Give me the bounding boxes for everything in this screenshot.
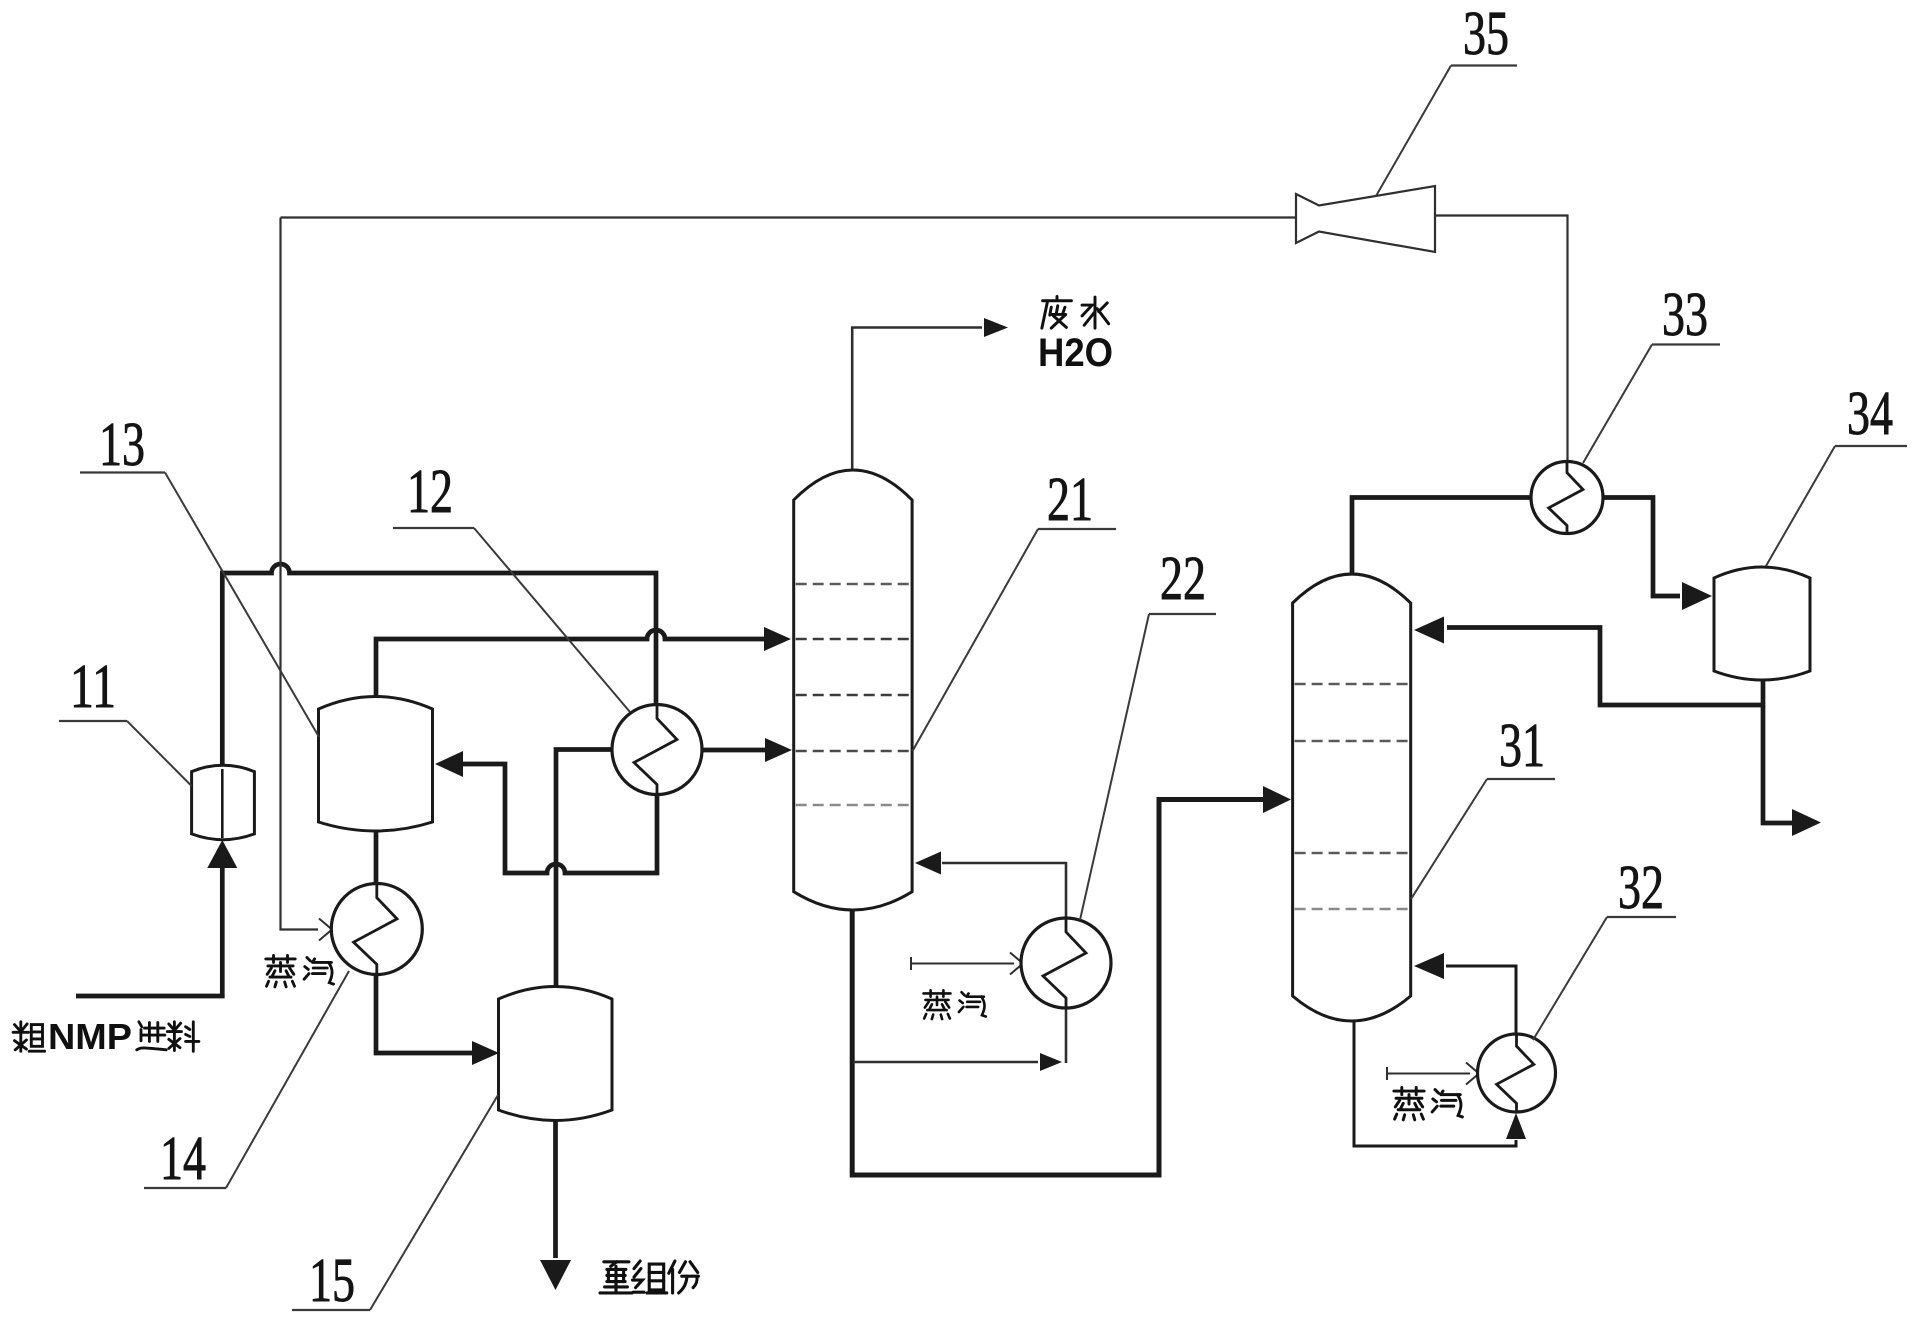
wire HX12 outlet to column 21 — [700, 738, 792, 762]
heat exchanger 14 (steam heater) — [331, 884, 422, 975]
label 13 — [80, 411, 319, 737]
label 33 — [1583, 281, 1720, 463]
wire HX12 left to vessel 15 — [556, 750, 614, 989]
svg-text:12: 12 — [407, 458, 453, 526]
heat exchanger 22 (reboiler) — [1021, 918, 1111, 1008]
wire HX14 bottom to vessel 15 — [376, 972, 499, 1065]
text steam at HX14 — [266, 955, 334, 987]
svg-text:22: 22 — [1160, 545, 1206, 613]
svg-text:NMP: NMP — [48, 1016, 132, 1057]
heat exchanger 33 (condenser) — [1531, 462, 1603, 534]
svg-text:H2O: H2O — [1038, 331, 1113, 375]
svg-text:31: 31 — [1499, 712, 1545, 780]
wire vessel 15 bottoms outlet — [540, 1118, 571, 1290]
wire vessel 13 top to column 21 feed — [376, 627, 791, 698]
text wastewater — [1038, 296, 1113, 375]
wire reflux return to column 31 — [1414, 617, 1765, 706]
wire HX33 to vessel 34 — [1602, 498, 1712, 611]
text steam at HX22 — [924, 990, 986, 1019]
svg-text:13: 13 — [99, 411, 145, 479]
svg-text:34: 34 — [1847, 380, 1893, 448]
svg-text:15: 15 — [309, 1247, 355, 1315]
svg-text:33: 33 — [1662, 281, 1708, 349]
label 12 — [393, 458, 630, 712]
vessel 34 (reflux drum) — [1714, 567, 1810, 680]
wire column 21 bottoms branch to HX22 — [853, 1008, 1066, 1071]
text steam at HX32 — [1394, 1087, 1463, 1119]
vessel 13 (tank) — [319, 697, 433, 832]
label 22 — [1080, 545, 1216, 920]
label 15 — [292, 1095, 498, 1315]
wire HX22 vapor return to column 21 — [915, 852, 1066, 921]
svg-text:11: 11 — [70, 653, 116, 721]
svg-text:21: 21 — [1047, 466, 1093, 534]
wire vessel 13 bottom to HX14 — [374, 829, 379, 886]
ejector 35 (vapor compressor) — [1296, 186, 1435, 252]
vessel 15 (heavies tank) — [499, 987, 613, 1121]
heat exchanger 12 — [612, 705, 702, 795]
wire steam riser to HX14 — [281, 218, 333, 941]
wire HX12 bottom recycle to vessel 13 — [435, 751, 657, 873]
label 34 — [1766, 380, 1907, 566]
text heavy components — [600, 1261, 698, 1293]
label 14 — [144, 971, 349, 1193]
column 31 (rectifying column) — [1293, 574, 1411, 1021]
wire column 31 bottoms to HX32 — [1354, 1019, 1526, 1146]
wire vessel 11 internal passage — [221, 769, 224, 838]
wire vessel 34 bottoms line — [1761, 678, 1766, 707]
wire overhead header to HX12 top — [220, 564, 656, 706]
wire column 21 overhead wastewater — [852, 318, 1008, 470]
wire crude NMP feed line — [76, 840, 237, 996]
label 11 — [59, 653, 192, 786]
wire HX33 to column 31 top — [1352, 498, 1532, 577]
text crude NMP feed — [13, 1016, 199, 1057]
wire ejector suction line — [281, 216, 1297, 218]
label 21 — [913, 466, 1117, 751]
vessel 11 (filter) — [192, 765, 255, 839]
heat exchanger 32 (reboiler) — [1478, 1034, 1556, 1112]
label 35 — [1376, 0, 1517, 196]
svg-text:32: 32 — [1618, 854, 1664, 922]
label 32 — [1533, 854, 1676, 1040]
wire steam inlet to HX22 — [911, 952, 1023, 974]
wire ejector discharge to HX33 — [1435, 216, 1568, 463]
wire HX32 return to column 31 — [1414, 953, 1516, 1036]
svg-text:14: 14 — [160, 1125, 206, 1193]
wire NMP product outlet — [1763, 705, 1821, 836]
column 21 (stripping column) — [794, 470, 912, 910]
svg-text:35: 35 — [1463, 0, 1509, 68]
wire column 21 bottoms to column 31 — [852, 786, 1291, 1175]
wire steam inlet to HX32 — [1387, 1062, 1479, 1084]
label 31 — [1411, 712, 1555, 899]
wire vessel 11 top to header — [220, 573, 225, 768]
